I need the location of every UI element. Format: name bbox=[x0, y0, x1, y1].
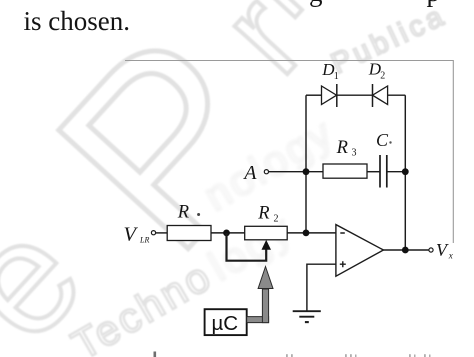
potentiometer R2 body bbox=[245, 226, 288, 240]
wire: R1 to R2 through junction bbox=[211, 232, 245, 234]
svg-text:is chosen.: is chosen. bbox=[24, 6, 130, 36]
wire: node A branch to R3 bbox=[306, 171, 323, 173]
diode D1 bbox=[322, 84, 337, 107]
figure frame (decorative) bbox=[125, 61, 453, 244]
svg-text:x: x bbox=[448, 251, 453, 261]
svg-text:µC: µC bbox=[211, 312, 238, 335]
wire: left vertical rail (diodes top to R2 output node) bbox=[305, 95, 307, 233]
VLR input terminal bbox=[151, 231, 155, 235]
svg-text:R: R bbox=[336, 138, 348, 158]
resistor R1 bbox=[167, 226, 211, 241]
junction: R2 output node bbox=[303, 230, 310, 237]
capacitor C bbox=[380, 155, 387, 188]
svg-text:2: 2 bbox=[380, 71, 385, 82]
svg-text:Publica: Publica bbox=[326, 0, 451, 80]
wire: R2 to op-amp inverting input through junction bbox=[287, 232, 336, 234]
junction: R3/C to right rail bbox=[402, 168, 409, 175]
uC control arrow (thick gray) bbox=[247, 267, 273, 323]
wire: op-amp noninverting input to ground drop bbox=[307, 264, 336, 311]
svg-text:1: 1 bbox=[334, 71, 339, 82]
svg-text:A: A bbox=[242, 162, 257, 184]
wire: node A to left vertical bbox=[269, 171, 306, 173]
junction: A node on left rail bbox=[303, 168, 310, 175]
op-amp noninverting input marker bbox=[340, 261, 346, 267]
op-amp inverting input marker bbox=[340, 232, 345, 234]
wire: capacitor C to right rail bbox=[387, 171, 406, 173]
svg-text:2: 2 bbox=[274, 214, 279, 225]
wire: top rail left segment to D1 bbox=[306, 94, 322, 96]
cut-off next-line text marks (bottom edge) bbox=[154, 352, 431, 357]
R2 wiper arrowhead bbox=[262, 240, 272, 250]
wire: between D1 cathode and D2 cathode bbox=[337, 94, 373, 96]
junction: R1-R2 node bbox=[223, 230, 230, 237]
wire: R2 wiper return (junction down, right, up to wiper arrow) bbox=[227, 233, 267, 261]
ground bbox=[293, 311, 321, 322]
svg-text:LR: LR bbox=[139, 236, 149, 245]
svg-text:R: R bbox=[177, 203, 189, 223]
svg-text:g: g bbox=[309, 0, 323, 7]
op-amp U1 bbox=[336, 225, 384, 277]
wire: R3 to capacitor C bbox=[367, 171, 380, 173]
svg-text:C: C bbox=[376, 130, 389, 150]
wire: D2 to top-right corner bbox=[388, 94, 406, 96]
wire: right vertical rail (top corner to output node) bbox=[404, 95, 406, 250]
junction: output node bbox=[402, 247, 409, 254]
wire: op-amp output to Vx terminal bbox=[383, 249, 429, 251]
diode D2 bbox=[373, 84, 388, 107]
svg-text:R: R bbox=[257, 204, 269, 224]
resistor R3 bbox=[323, 164, 367, 178]
Vx output terminal bbox=[429, 248, 433, 252]
node A terminal bbox=[264, 170, 268, 174]
microcontroller block uC bbox=[205, 309, 247, 335]
wire: VLR terminal to R1 bbox=[156, 232, 168, 234]
svg-text:V: V bbox=[436, 240, 449, 260]
svg-text:3: 3 bbox=[352, 148, 357, 159]
svg-text:p: p bbox=[427, 0, 441, 7]
